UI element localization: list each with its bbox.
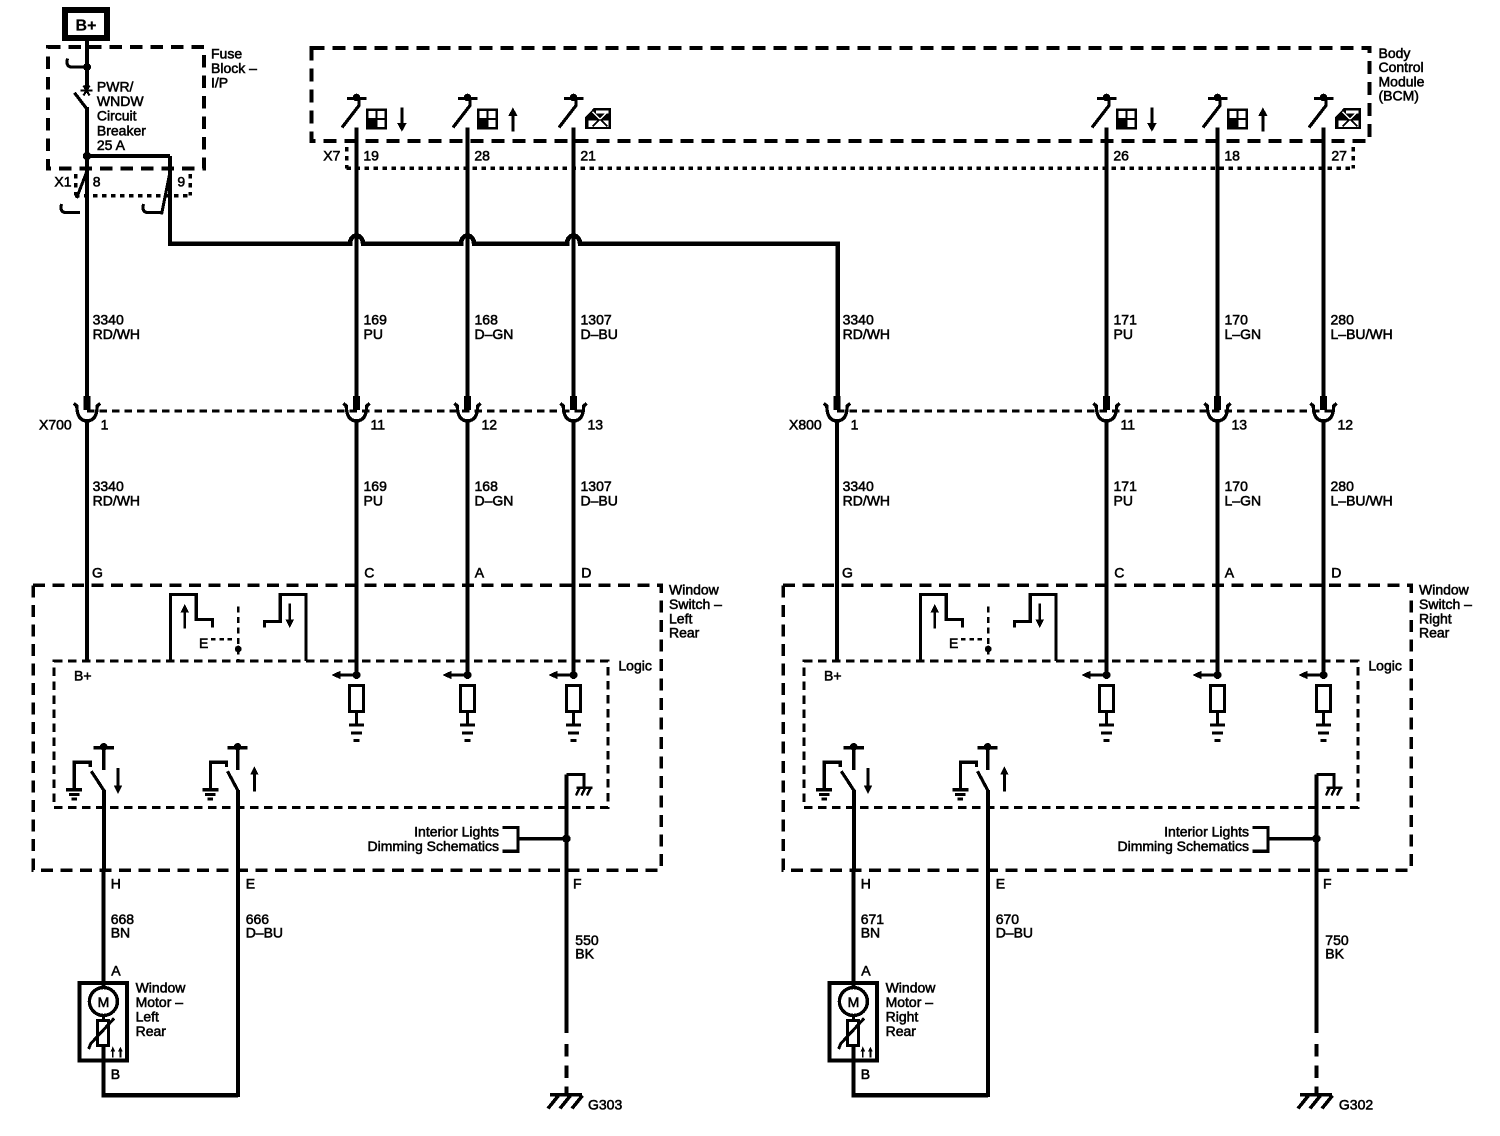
- supply bus wire with hops to right switch: [168, 236, 838, 401]
- PWR/WNDW circuit breaker 25A: [75, 86, 93, 157]
- connector hook at B+ feed: [67, 59, 91, 72]
- svg-text:B+: B+: [76, 18, 97, 35]
- svg-text:12: 12: [482, 417, 498, 433]
- B+ power box: [62, 7, 110, 41]
- connector symbol at pin 8: [61, 169, 88, 213]
- wire junction to pin 9: [87, 154, 170, 158]
- svg-text:28: 28: [474, 147, 490, 163]
- wire B+ to breaker: [85, 41, 89, 88]
- connector X1 row: [75, 174, 191, 196]
- svg-text:G303: G303: [588, 1096, 622, 1112]
- connector symbol at pin 9: [143, 170, 171, 215]
- svg-text:G302: G302: [1339, 1096, 1373, 1112]
- svg-text:19: 19: [363, 147, 379, 163]
- svg-text:12: 12: [1338, 417, 1354, 433]
- svg-text:X7: X7: [323, 147, 340, 163]
- svg-text:18: 18: [1224, 147, 1240, 163]
- svg-text:X800: X800: [789, 417, 822, 433]
- svg-text:11: 11: [1121, 417, 1136, 433]
- svg-text:X1: X1: [54, 174, 71, 190]
- svg-text:11: 11: [371, 417, 386, 433]
- svg-text:26: 26: [1113, 147, 1129, 163]
- svg-text:21: 21: [580, 147, 596, 163]
- connector X7 row dotted line: [347, 147, 1354, 169]
- svg-text:13: 13: [1232, 417, 1248, 433]
- svg-text:13: 13: [588, 417, 604, 433]
- wire pin 8 down: [85, 156, 89, 400]
- junction node in fuse block: [83, 152, 91, 160]
- body control module dashed box: [312, 48, 1370, 141]
- fuse block dashed box: [48, 47, 204, 169]
- svg-text:27: 27: [1331, 147, 1347, 163]
- svg-text:8: 8: [93, 174, 101, 190]
- svg-text:1: 1: [101, 417, 109, 433]
- svg-text:9: 9: [177, 174, 185, 190]
- svg-text:1: 1: [851, 417, 859, 433]
- svg-text:X700: X700: [39, 417, 72, 433]
